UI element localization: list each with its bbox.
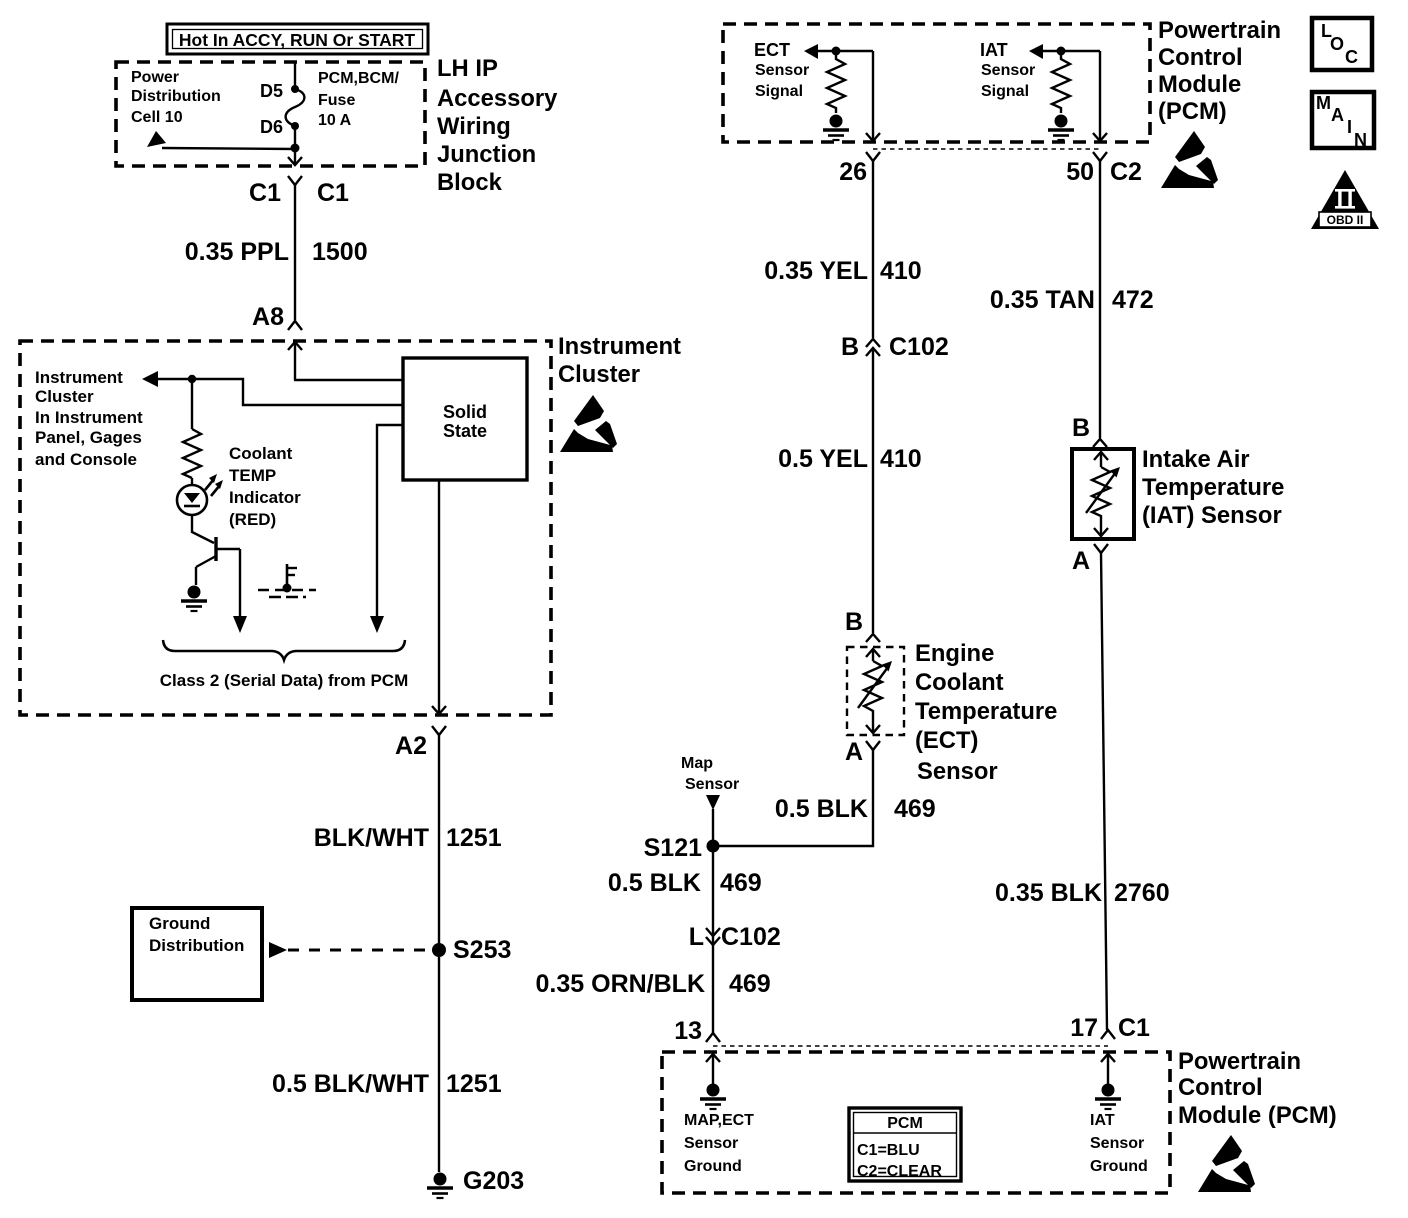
svg-text:Fuse: Fuse: [318, 92, 355, 109]
ESD symbol (PCM top): [1161, 131, 1218, 188]
svg-text:Temperature: Temperature: [915, 698, 1057, 725]
ECT thermistor RT1: [858, 661, 892, 716]
label: ECT Sensor Signal: [754, 40, 809, 100]
resistor (lamp dropping): [183, 429, 201, 478]
coolant temperature gauge icon: [258, 564, 316, 597]
svg-text:LH IP: LH IP: [437, 55, 498, 82]
svg-text:Sensor: Sensor: [917, 758, 998, 785]
svg-text:(IAT) Sensor: (IAT) Sensor: [1142, 502, 1282, 529]
svg-text:State: State: [443, 421, 487, 441]
svg-text:In Instrument: In Instrument: [35, 408, 143, 427]
arrow to IAT sensor signal: [1029, 44, 1043, 59]
svg-text:Hot In ACCY, RUN Or START: Hot In ACCY, RUN Or START: [179, 30, 416, 50]
svg-text:TEMP: TEMP: [229, 466, 276, 485]
svg-text:A8: A8: [252, 303, 284, 331]
connector pin 17: [1101, 1030, 1115, 1039]
svg-text:A: A: [845, 738, 863, 766]
svg-text:Map: Map: [681, 755, 713, 772]
arrow entering ECT sensor: [866, 649, 880, 661]
svg-text:C1: C1: [317, 179, 349, 207]
label: LH IP Accessory Wiring Junction Block: [437, 55, 558, 196]
5V supply (IAT pullup): [1048, 115, 1074, 141]
svg-text:1251: 1251: [446, 1070, 502, 1098]
svg-text:Control: Control: [1158, 44, 1243, 71]
emitter wire to ground: [195, 567, 197, 585]
ground (IAT sensor ground): [1095, 1084, 1121, 1110]
collector wire down to serial data brace: [239, 549, 241, 617]
svg-text:Signal: Signal: [755, 83, 803, 100]
svg-text:Sensor: Sensor: [1090, 1135, 1144, 1152]
dashed link to S253: [288, 949, 430, 952]
svg-text:PCM: PCM: [887, 1115, 923, 1132]
arrow (collector to brace): [233, 616, 247, 633]
svg-text:C1: C1: [1118, 1014, 1150, 1042]
arrow to cluster loads: [142, 371, 158, 387]
svg-text:0.35 YEL: 0.35 YEL: [764, 257, 868, 285]
connector pin 26: [866, 152, 880, 161]
svg-text:1251: 1251: [446, 824, 502, 852]
svg-text:PCM,BCM/: PCM,BCM/: [318, 70, 399, 87]
svg-text:IAT: IAT: [980, 40, 1008, 60]
svg-text:Ground: Ground: [1090, 1158, 1148, 1175]
svg-text:ECT: ECT: [754, 40, 790, 60]
connector B at ECT sensor: [866, 634, 880, 642]
svg-text:IAT: IAT: [1090, 1112, 1115, 1129]
arrow leaving PCM at pin 26: [866, 133, 880, 141]
connector A at ECT sensor: [866, 741, 880, 750]
svg-text:MAP,ECT: MAP,ECT: [684, 1112, 754, 1129]
svg-text:B: B: [841, 333, 859, 361]
wire C102 to ECT sensor, circuit 410: [872, 348, 874, 633]
wire resistor to lamp: [191, 478, 193, 485]
svg-text:Cluster: Cluster: [35, 387, 94, 406]
svg-text:N: N: [1354, 130, 1367, 150]
svg-text:OBD II: OBD II: [1327, 213, 1364, 227]
svg-text:Distribution: Distribution: [149, 936, 244, 955]
splice node S121: [707, 840, 720, 853]
svg-text:Class 2 (Serial Data) from PCM: Class 2 (Serial Data) from PCM: [160, 671, 408, 690]
wire fuse to junction: [294, 126, 296, 148]
wire IAT A to pin 17, circuit 2760: [1101, 553, 1107, 1030]
svg-text:0.35 BLK: 0.35 BLK: [995, 879, 1102, 907]
arrow leaving junction block: [288, 148, 302, 165]
svg-text:C: C: [1345, 47, 1358, 67]
svg-text:Ground: Ground: [149, 914, 210, 933]
svg-text:Engine: Engine: [915, 640, 994, 667]
svg-text:Panel, Gages: Panel, Gages: [35, 428, 142, 447]
svg-text:Sensor: Sensor: [981, 62, 1035, 79]
wire A8 entry to Solid State: [294, 379, 403, 381]
svg-text:Module: Module: [1158, 71, 1241, 98]
svg-text:0.5 BLK: 0.5 BLK: [775, 795, 868, 823]
svg-text:410: 410: [880, 445, 922, 473]
arrow from Ground Distribution: [269, 942, 287, 958]
svg-text:Sensor: Sensor: [755, 62, 809, 79]
arrow leaving PCM at pin 50: [1093, 133, 1107, 141]
svg-text:2760: 2760: [1114, 879, 1170, 907]
in-line connector C102 (L): [706, 928, 720, 945]
arrow leaving IAT sensor: [1094, 521, 1108, 536]
connector A at IAT sensor: [1094, 544, 1108, 553]
svg-text:C2=CLEAR: C2=CLEAR: [857, 1163, 942, 1180]
connector C1 (junction block side): [288, 176, 302, 185]
label: Powertrain Control Module (PCM) top: [1158, 17, 1281, 125]
arrow leaving cluster at A2: [432, 706, 446, 714]
svg-text:A: A: [1072, 547, 1090, 575]
arrow to Power Distribution: [147, 131, 166, 147]
svg-text:D6: D6: [260, 117, 283, 137]
ground G203: [427, 1173, 453, 1199]
Instrument Cluster dashed box: [20, 341, 551, 715]
svg-text:0.35 PPL: 0.35 PPL: [185, 238, 289, 266]
junction node (IAT pullup): [1057, 47, 1066, 56]
wire Solid State to A2: [438, 480, 440, 714]
label: Map Sensor: [681, 755, 739, 793]
svg-text:I: I: [1347, 117, 1352, 137]
svg-text:M: M: [1316, 93, 1331, 113]
svg-text:469: 469: [720, 869, 762, 897]
wire PCM pin 50 internal: [1099, 51, 1101, 140]
svg-text:Temperature: Temperature: [1142, 474, 1284, 501]
svg-text:C2: C2: [1110, 158, 1142, 186]
PCM connector face dashed line: [873, 148, 1100, 150]
svg-text:0.35 TAN: 0.35 TAN: [990, 286, 1095, 314]
label: IAT Sensor Ground: [1090, 1112, 1148, 1175]
PCM bottom dashed box: [662, 1052, 1170, 1193]
svg-text:0.5 BLK: 0.5 BLK: [608, 869, 701, 897]
Ground Distribution box: [132, 908, 262, 1000]
wire Solid State serial data out: [377, 425, 403, 616]
OBD II symbol: [1311, 170, 1379, 229]
label: Intake Air Temperature (IAT) Sensor: [1142, 446, 1284, 529]
wire 26 to C102, circuit 410: [872, 161, 874, 338]
svg-text:Distribution: Distribution: [131, 88, 221, 105]
junction node lamp branch: [188, 375, 196, 383]
arrow entering cluster at A8: [288, 342, 302, 380]
PCM connector legend table: [849, 1108, 961, 1181]
svg-text:13: 13: [674, 1017, 702, 1045]
label: Instrument Cluster In Instrument Panel, Gages and Console: [35, 368, 143, 469]
arrow to ECT sensor signal: [804, 44, 818, 59]
wire PCM pin 26 internal: [872, 51, 874, 140]
svg-text:Wiring: Wiring: [437, 113, 511, 140]
svg-text:Ground: Ground: [684, 1158, 742, 1175]
svg-text:Junction: Junction: [437, 141, 536, 168]
svg-text:Instrument: Instrument: [35, 368, 123, 387]
label: IAT Sensor Signal: [980, 40, 1035, 100]
svg-text:Block: Block: [437, 169, 503, 196]
label: Power Distribution Cell 10: [131, 69, 221, 126]
wire Map sensor to S121: [712, 809, 714, 1033]
label: Coolant TEMP Indicator (RED): [229, 444, 301, 529]
junction node (ECT pullup): [832, 47, 841, 56]
arrow (serial data to brace): [370, 616, 384, 633]
svg-text:Module (PCM): Module (PCM): [1178, 1102, 1337, 1129]
svg-text:Sensor: Sensor: [684, 1135, 738, 1152]
connector B at IAT sensor: [1093, 439, 1107, 447]
wire lamp to transistor base: [192, 515, 214, 543]
ESD symbol (PCM bottom): [1198, 1135, 1255, 1192]
IAT thermistor RT2: [1086, 467, 1120, 521]
svg-text:(RED): (RED): [229, 510, 276, 529]
ECT sensor dashed box: [847, 647, 904, 735]
arrow leaving ECT sensor: [866, 716, 880, 733]
svg-text:469: 469: [894, 795, 936, 823]
PCM bottom connector face dashed line: [713, 1045, 1108, 1047]
splice node S253: [432, 943, 446, 957]
wire Solid State to cluster lamp circuit: [156, 379, 403, 405]
wire 50 to IAT sensor, circuit 472: [1099, 161, 1101, 438]
svg-text:0.35 ORN/BLK: 0.35 ORN/BLK: [536, 970, 705, 998]
svg-text:Solid: Solid: [443, 402, 487, 422]
svg-text:Signal: Signal: [981, 83, 1029, 100]
svg-text:A2: A2: [395, 732, 427, 760]
arrow entering IAT sensor: [1094, 452, 1108, 467]
in-line connector C102 (B): [866, 339, 880, 356]
ground (transistor emitter): [181, 586, 207, 612]
svg-text:Coolant: Coolant: [229, 444, 293, 463]
arrow from Map Sensor: [706, 795, 720, 810]
wire A2 to S253, circuit 1251: [438, 735, 440, 1172]
label: Powertrain Control Module (PCM) bottom: [1178, 1048, 1337, 1129]
svg-text:50: 50: [1066, 158, 1094, 186]
svg-text:Powertrain: Powertrain: [1178, 1048, 1301, 1075]
brace: Class 2 serial data: [163, 640, 405, 660]
svg-text:Indicator: Indicator: [229, 488, 301, 507]
svg-text:Cluster: Cluster: [558, 361, 640, 388]
pull-up resistor (IAT): [1052, 55, 1070, 113]
MAIN legend box: [1312, 92, 1374, 150]
svg-text:472: 472: [1112, 286, 1154, 314]
arrow entering PCM at pin 17: [1101, 1054, 1115, 1084]
wire junction to resistor: [191, 379, 193, 429]
svg-text:S121: S121: [644, 834, 702, 862]
connector pin 13: [706, 1033, 720, 1042]
IAT sensor box: [1072, 449, 1134, 539]
svg-text:C1=BLU: C1=BLU: [857, 1142, 920, 1159]
svg-text:(PCM): (PCM): [1158, 98, 1227, 125]
svg-text:(ECT): (ECT): [915, 727, 978, 754]
Coolant TEMP indicator lamp: [177, 474, 223, 515]
svg-text:B: B: [1072, 414, 1090, 442]
svg-text:1500: 1500: [312, 238, 368, 266]
svg-text:Cell 10: Cell 10: [131, 109, 183, 126]
svg-text:D5: D5: [260, 81, 283, 101]
label: MAP,ECT Sensor Ground: [684, 1112, 754, 1175]
svg-text:BLK/WHT: BLK/WHT: [314, 824, 429, 852]
svg-text:A: A: [1331, 105, 1344, 125]
svg-text:Intake Air: Intake Air: [1142, 446, 1250, 473]
transistor Q1: [196, 537, 240, 567]
svg-text:C1: C1: [249, 179, 281, 207]
svg-text:Coolant: Coolant: [915, 669, 1004, 696]
svg-text:Accessory: Accessory: [437, 85, 558, 112]
svg-text:Instrument: Instrument: [558, 333, 681, 360]
svg-text:0.5 YEL: 0.5 YEL: [778, 445, 868, 473]
svg-text:and Console: and Console: [35, 450, 137, 469]
power feed label box "Hot In ACCY, RUN Or START": [167, 24, 428, 54]
LH IP junction block dashed box: [116, 62, 425, 166]
5V supply (ECT pullup): [823, 115, 849, 141]
connector pin 50: [1093, 152, 1107, 161]
wire C1 to A8, circuit 1500: [294, 185, 296, 320]
label: Instrument Cluster (section title): [558, 333, 681, 388]
arrow entering PCM at pin 13: [706, 1054, 720, 1084]
svg-text:26: 26: [839, 158, 867, 186]
svg-text:O: O: [1330, 34, 1344, 54]
wire ECT signal internal: [818, 50, 873, 52]
svg-text:C102: C102: [889, 333, 949, 361]
svg-text:L: L: [689, 923, 704, 951]
ground (MAP,ECT sensor ground): [700, 1084, 726, 1110]
svg-text:G203: G203: [463, 1167, 524, 1195]
ESD symbol (instrument cluster): [560, 395, 617, 452]
wire ECT A to S121, circuit 469: [713, 750, 873, 846]
svg-text:469: 469: [729, 970, 771, 998]
svg-text:Sensor: Sensor: [685, 776, 739, 793]
wire to power distribution arrow: [162, 148, 295, 149]
Solid State box U1: [403, 358, 527, 480]
svg-text:Control: Control: [1178, 1074, 1263, 1101]
wire IAT signal internal: [1043, 50, 1100, 52]
label: Engine Coolant Temperature (ECT) Sensor: [915, 640, 1057, 785]
wire from box top to fuse: [294, 62, 296, 89]
svg-text:10 A: 10 A: [318, 112, 352, 129]
fuse F1 PCM,BCM 10A: [286, 85, 305, 130]
PCM top dashed box: [723, 24, 1150, 142]
connector A2: [432, 726, 446, 735]
svg-text:B: B: [845, 608, 863, 636]
svg-text:S253: S253: [453, 936, 511, 964]
svg-text:17: 17: [1070, 1014, 1098, 1042]
svg-text:410: 410: [880, 257, 922, 285]
pull-up resistor (ECT): [827, 55, 845, 113]
svg-text:0.5 BLK/WHT: 0.5 BLK/WHT: [272, 1070, 429, 1098]
svg-text:C102: C102: [721, 923, 781, 951]
junction node in junction block: [291, 144, 300, 153]
connector A8 (cluster side): [288, 321, 302, 330]
svg-text:Powertrain: Powertrain: [1158, 17, 1281, 44]
LOC legend box: [1312, 18, 1372, 70]
label: PCM,BCM/ Fuse 10 A: [318, 70, 399, 129]
svg-text:Power: Power: [131, 69, 179, 86]
